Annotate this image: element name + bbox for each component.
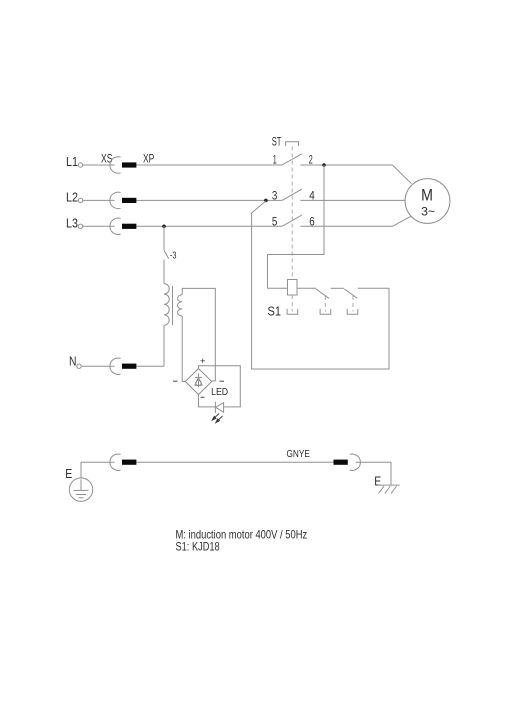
connector socket N (arc) — [110, 358, 121, 374]
connector XP pin L3 (black rect) — [122, 224, 136, 229]
wire S1 coil feed from phase1 — [268, 165, 325, 288]
wire earth up and to connector — [81, 462, 115, 478]
transformer T1 secondary winding — [177, 295, 182, 316]
switch ST mechanical link (dashed) — [291, 147, 293, 280]
S1 aux contact 1 blade — [316, 289, 329, 298]
node N terminal circle — [77, 364, 81, 368]
earth electrode circle — [69, 478, 92, 501]
connector XS socket L1 (arc) — [110, 157, 121, 173]
wire bridge plus to LED box — [199, 366, 241, 407]
connector XS socket L3 (arc) — [110, 218, 121, 234]
svg-text:2: 2 — [309, 152, 313, 166]
chassis ground bar — [378, 484, 400, 486]
switch ST contact 1-2 blade — [282, 154, 302, 165]
svg-text:L2: L2 — [66, 189, 78, 204]
S1 coil actuator bracket — [287, 309, 298, 314]
earth symbol stem — [80, 479, 82, 490]
svg-text:1: 1 — [273, 152, 277, 166]
node junction dot phase1 S1 tap — [322, 163, 326, 167]
wire contact 6 to motor corner — [300, 225, 392, 227]
svg-text:GNYE: GNYE — [287, 448, 310, 460]
wire secondary top to bridge right corner — [182, 288, 215, 381]
coil S1 (rect) — [288, 280, 298, 296]
node junction dot on L2 (S1 return tap) — [264, 199, 268, 203]
wire N to connector — [81, 365, 114, 367]
wire N to transformer primary — [136, 365, 164, 367]
LED D1 triangle — [216, 403, 224, 413]
wire L1 phase to switch contact 1 — [136, 164, 282, 166]
connector pin E (black rect) — [122, 460, 136, 465]
wire primary bottom to N — [163, 325, 165, 366]
wire contact 4 to motor — [300, 199, 405, 201]
LED D1 cathode bar — [214, 402, 216, 413]
label minus left — [173, 380, 178, 382]
svg-text:XS: XS — [101, 151, 113, 165]
bridge rectifier diamond — [185, 369, 212, 395]
LED light arrow 1 — [212, 414, 222, 423]
connector pin E right (black rect) — [334, 460, 348, 465]
svg-text:S1: S1 — [268, 303, 282, 318]
svg-text:LED: LED — [211, 387, 228, 398]
node L1 terminal circle — [78, 163, 82, 167]
switch ST actuator bracket — [286, 142, 299, 146]
connector socket E (arc) — [110, 454, 121, 470]
wire contact 2 to motor corner — [300, 164, 392, 166]
S1 aux contact 1 bracket — [320, 309, 331, 314]
svg-text:M: M — [421, 186, 433, 205]
wire between aux contacts — [331, 287, 344, 289]
bridge diode circle — [196, 380, 201, 385]
svg-text:S1: KJD18: S1: KJD18 — [176, 540, 220, 554]
node junction dot on L3 (transformer tap) — [162, 225, 166, 229]
wire L2 to connector — [83, 199, 115, 201]
svg-text:E: E — [374, 473, 381, 488]
S1 aux contact 1 link dashed — [324, 296, 326, 312]
wire L3 to connector — [83, 225, 115, 227]
svg-text:N: N — [69, 354, 77, 369]
svg-text:3~: 3~ — [421, 207, 435, 219]
connector XP pin L1 (black rect) — [122, 162, 136, 167]
svg-text:-3: -3 — [170, 251, 177, 262]
svg-text:E: E — [65, 466, 72, 481]
chassis ground hatch 1 — [379, 486, 385, 494]
bridge diode triangle — [195, 378, 202, 386]
S1 aux contact 2 bracket — [347, 309, 358, 314]
switch ST contact 5-6 blade — [282, 215, 302, 226]
svg-text:L1: L1 — [66, 154, 78, 169]
earth symbol bar 3 — [79, 497, 84, 499]
bridge diode symbol line — [198, 373, 200, 387]
connector socket E right (arc) — [350, 454, 361, 470]
transformer T1 core — [172, 286, 174, 325]
label minus bottom — [201, 396, 205, 398]
node L2 terminal circle — [78, 198, 82, 202]
wire L3 phase to switch contact 5 — [136, 225, 282, 227]
wire S1 return loop to L2 junction — [252, 201, 389, 369]
connector XP pin L2 (black rect) — [122, 198, 136, 203]
wire L2 phase to switch contact 3 — [136, 199, 282, 201]
label minus right — [220, 380, 225, 382]
wire phase3 diagonal into motor — [392, 216, 411, 226]
earth symbol bar 1 — [74, 489, 89, 491]
connector XS socket L2 (arc) — [110, 192, 121, 208]
motor M1 circle — [405, 179, 450, 224]
svg-text:XP: XP — [143, 151, 154, 165]
wire thermal switch to transformer primary — [163, 260, 165, 284]
earth symbol bar 2 — [76, 494, 86, 496]
wire phase1 diagonal into motor — [392, 165, 411, 184]
chassis ground hatch 3 — [391, 486, 397, 494]
wire coil to aux contact 1 — [297, 287, 316, 289]
chassis ground hatch 2 — [385, 486, 391, 494]
S1 coil link dashed below — [291, 295, 293, 312]
svg-text:L3: L3 — [66, 215, 78, 230]
LED light arrow 2 — [217, 416, 223, 421]
wire GNYE — [136, 461, 333, 463]
bridge diode bar — [195, 376, 202, 378]
wire L3 tap down to thermal switch — [163, 226, 165, 250]
svg-text:5: 5 — [272, 214, 278, 228]
node L3 terminal circle — [78, 224, 82, 228]
transformer T1 primary winding — [164, 284, 169, 326]
wire L1 to connector — [83, 164, 115, 166]
switch ST contact 3-4 blade — [282, 189, 302, 200]
connector pin N (black rect) — [122, 364, 136, 369]
svg-text:3: 3 — [272, 188, 278, 202]
S1 aux contact 2 blade — [344, 289, 357, 298]
svg-text:ST: ST — [272, 134, 282, 148]
wire bridge minus to LED — [199, 395, 216, 407]
wire to chassis ground — [356, 462, 391, 485]
wire secondary bottom to bridge left corner — [182, 316, 185, 382]
thermal switch blade — [164, 250, 169, 258]
S1 aux contact 2 link dashed — [352, 296, 354, 312]
